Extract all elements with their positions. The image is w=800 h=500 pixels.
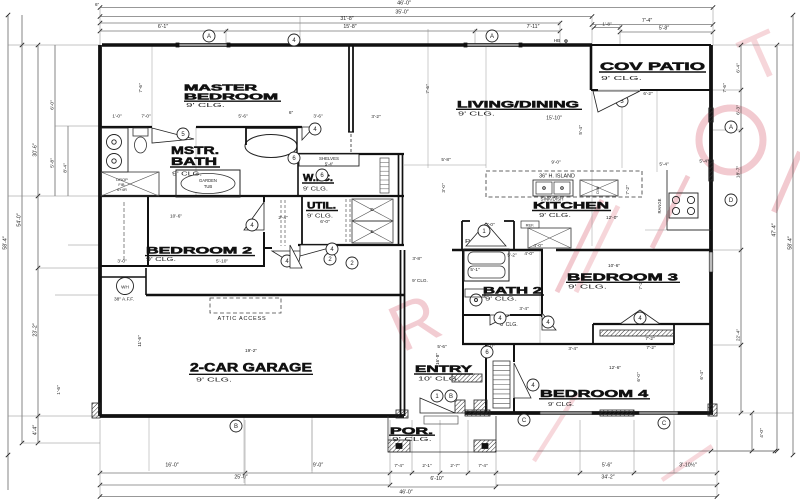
svg-text:TUB: TUB [204,184,213,189]
bath2 east wall [541,250,543,317]
garden tub [176,170,240,197]
svg-text:BEDROOM 2: BEDROOM 2 [146,246,252,257]
svg-text:38″ A.F.F.: 38″ A.F.F. [114,297,134,303]
right exterior wall [709,45,713,413]
util south wall [298,244,404,246]
svg-text:2-CAR GARAGE: 2-CAR GARAGE [190,361,312,375]
svg-text:MASTER: MASTER [184,84,257,93]
bath2 west wall [462,250,464,344]
bed2 hall doors [324,253,336,265]
svg-text:4'-0″: 4'-0″ [524,251,534,256]
util east wall [398,154,400,245]
mbath sink 1 [107,135,122,150]
tag C bottom2 [518,414,530,426]
svg-text:E: E [370,229,373,234]
svg-text:7'-2″: 7'-2″ [625,185,630,195]
garage south hatch right [396,410,408,418]
util west wall [301,196,303,245]
mbath toilet [133,128,148,136]
entry door tags [431,390,443,402]
svg-text:7'-4″: 7'-4″ [642,18,652,24]
right wall hatch kitchen [709,160,713,181]
svg-text:6'-0″: 6'-0″ [320,219,330,225]
svg-text:5'-6″: 5'-6″ [437,344,447,349]
left wall hatch bottom [92,403,100,418]
svg-text:9' CLG.: 9' CLG. [307,214,333,220]
svg-text:2'-1″: 2'-1″ [422,463,432,468]
svg-text:A: A [729,125,733,131]
svg-text:6+4R: 6+4R [117,187,127,192]
svg-text:15'-10″: 15'-10″ [546,116,562,122]
bedroom2 south wall [100,265,264,267]
svg-text:C: C [662,421,667,427]
entry hatch left [452,374,482,382]
svg-text:3'-6″: 3'-6″ [313,114,323,119]
svg-text:6'-1″: 6'-1″ [158,24,168,30]
exterior top wall with windows [102,43,592,47]
svg-text:31'-8″: 31'-8″ [340,16,353,22]
mbath vanity counter [101,128,128,172]
svg-text:3'-4″: 3'-4″ [568,346,578,351]
svg-text:WH: WH [121,285,129,290]
svg-text:BATH: BATH [171,156,217,168]
svg-text:16'-8″: 16'-8″ [435,353,440,365]
svg-text:9' CLG.: 9' CLG. [539,213,572,219]
island sink [533,180,573,196]
pantry west wall [461,221,463,250]
svg-text:19'-2″: 19'-2″ [245,348,257,353]
closet divider east [673,324,675,344]
interior dimension texts [112,83,727,382]
svg-text:5'-4″: 5'-4″ [325,161,334,166]
ref box [521,221,539,228]
svg-text:30'-6″: 30'-6″ [33,143,39,156]
bath2 tub [464,249,509,281]
svg-text:6'-4″: 6'-4″ [699,370,704,380]
closet divider west [592,324,594,344]
pantry east wall [513,221,515,250]
svg-text:4'-0″: 4'-0″ [759,428,765,438]
window tag A2 [486,30,498,42]
svg-text:47'-4″: 47'-4″ [772,223,778,236]
mbath shower [245,135,297,158]
svg-text:12'-6″: 12'-6″ [609,365,621,370]
wic north wall [298,153,404,155]
svg-text:5'-4″: 5'-4″ [578,125,583,135]
master east wall [348,45,350,132]
svg-text:9' CLG.: 9' CLG. [568,285,607,291]
svg-text:GARDEN: GARDEN [199,178,217,183]
top dimension lines [95,1,715,45]
garage north wall [146,294,404,296]
svg-text:9' CLG.: 9' CLG. [601,76,643,82]
front door steps [424,416,458,424]
wic rod strip [380,158,389,193]
svg-text:1'-8″: 1'-8″ [602,21,612,26]
hall south door [272,251,301,267]
svg-text:46'-0″: 46'-0″ [399,490,412,496]
shelves box [299,154,359,166]
svg-text:A: A [490,34,494,40]
bedroom2 east wall [263,196,265,202]
bed4 closet tag [481,346,493,358]
svg-text:6″: 6″ [289,110,294,115]
svg-text:54'-0″: 54'-0″ [17,213,23,226]
bedroom4 south exterior wall with windows [465,411,713,414]
svg-text:D/W: D/W [596,186,600,194]
pantry north wall [462,220,470,222]
svg-text:22'-4″: 22'-4″ [736,329,742,342]
right dimension lines [713,13,795,457]
range box [669,193,698,218]
svg-text:34'-2″: 34'-2″ [601,475,614,481]
porch column left [388,440,410,452]
svg-text:C: C [522,418,527,424]
svg-text:2'-4″: 2'-4″ [278,215,288,220]
svg-text:SHELVES: SHELVES [319,156,339,161]
mbath door [152,128,194,143]
kitchen counter right [666,170,668,230]
bed3 west wall [541,250,543,313]
util door [300,245,340,256]
svg-text:7'-6″: 7'-6″ [722,83,727,93]
hall dashed strip [280,200,282,246]
svg-text:7'-2″: 7'-2″ [638,280,643,290]
svg-text:3'-4″: 3'-4″ [519,306,529,311]
porch edge right [495,416,497,440]
svg-text:3'-0″: 3'-0″ [441,183,446,193]
wh closet top [100,276,146,278]
svg-text:5'-6″: 5'-6″ [602,463,612,469]
svg-text:9' CLG.: 9' CLG. [458,112,496,118]
left exterior wall [98,45,102,416]
svg-text:9'-0″: 9'-0″ [313,463,323,469]
svg-text:B: B [449,394,453,400]
pantry door [466,223,506,246]
wh closet east [145,268,147,295]
svg-text:5'-6″: 5'-6″ [238,114,248,119]
garage tag [230,420,242,432]
mbath sink 2 [107,154,122,169]
svg-text:7'-6″: 7'-6″ [425,84,430,94]
wic west wall [297,154,299,196]
svg-text:7'-4″: 7'-4″ [394,463,404,468]
tag A right [725,121,737,133]
svg-text:58'-4″: 58'-4″ [788,236,794,249]
svg-text:5'-8″: 5'-8″ [659,25,669,31]
svg-text:9' CLG.: 9' CLG. [548,402,574,408]
bed4 closet shelf [493,361,510,408]
bed3 south wall [593,323,711,325]
svg-text:2'-7″: 2'-7″ [450,463,460,468]
svg-text:9' CLG.: 9' CLG. [186,103,226,109]
svg-text:25'-0″: 25'-0″ [234,475,247,481]
svg-text:10' CLG.: 10' CLG. [418,377,460,383]
svg-text:B: B [234,424,238,430]
svg-text:HB: HB [554,38,560,43]
bedroom2 door leaf [244,202,264,230]
hall south wall [264,247,272,249]
bottom dimension lines [98,420,777,499]
svg-text:9' CLG.: 9' CLG. [146,257,176,263]
svg-text:4'-4″: 4'-4″ [33,425,39,435]
interior extension lines [149,45,713,483]
svg-text:A: A [207,34,211,40]
svg-text:5'-8″: 5'-8″ [50,158,56,168]
svg-text:8'-4″: 8'-4″ [63,163,69,173]
svg-text:36″ H. ISLAND: 36″ H. ISLAND [539,174,575,180]
svg-text:6'-0″: 6'-0″ [50,100,56,110]
svg-text:9' CLG.: 9' CLG. [172,172,202,178]
bedroom2 closet wall [147,196,149,266]
bed4 door [514,363,531,398]
svg-text:9' CLG.: 9' CLG. [303,187,328,193]
tag top4 [288,34,300,46]
right wall window bedroom3 [709,252,713,272]
mbath south wall [100,195,404,197]
bed4 closet east wall [513,344,515,362]
svg-text:1'-0″: 1'-0″ [112,114,122,119]
svg-text:3'-2″: 3'-2″ [371,114,381,119]
svg-text:6'-10″: 6'-10″ [430,476,443,482]
patio west wall [590,45,593,90]
svg-text:4'-0″: 4'-0″ [533,243,543,248]
porch front edge [388,451,496,453]
svg-text:11'-6″: 11'-6″ [137,335,142,347]
svg-text:58'-4″: 58'-4″ [3,236,9,249]
left dimension lines [3,13,101,490]
bedroom4 south wall hatch [600,410,634,416]
svg-text:3'-8″: 3'-8″ [412,256,422,261]
wic door [316,169,328,181]
svg-text:7'-0″: 7'-0″ [141,114,151,119]
util dashed strip [345,199,347,243]
porch edge left [387,416,389,440]
washer dryer boxes [352,199,393,221]
svg-text:5'-1″: 5'-1″ [470,267,480,272]
svg-text:12'-0″: 12'-0″ [606,215,618,220]
svg-text:7'-11″: 7'-11″ [527,24,540,30]
closet shelf hatch [600,330,674,336]
island dw [580,180,618,196]
linen closet xbox [101,172,159,196]
svg-text:46'-0″: 46'-0″ [397,1,411,7]
svg-text:15'-8″: 15'-8″ [343,24,356,30]
svg-text:5'-2″: 5'-2″ [507,253,517,258]
garage east wall [400,250,402,416]
svg-text:9' CLG.: 9' CLG. [392,437,432,443]
svg-text:ATTIC ACCESS: ATTIC ACCESS [218,316,267,322]
svg-text:6'-0″: 6'-0″ [636,372,641,382]
attic access [210,298,281,313]
svg-text:5'-4″: 5'-4″ [659,162,669,167]
garage south wall [100,414,404,418]
svg-text:9' CLG.: 9' CLG. [412,278,428,283]
patio top wall [592,44,711,46]
svg-text:D: D [729,198,734,204]
svg-text:10'-6″: 10'-6″ [170,214,182,219]
svg-text:23'-2″: 23'-2″ [33,323,39,336]
bed3 door [542,313,556,330]
bath2 toilet [465,289,485,297]
entry west upper wall [404,250,406,295]
kitchen island [486,171,642,197]
svg-text:9' CLG.: 9' CLG. [196,378,233,384]
svg-text:5'-10″: 5'-10″ [216,259,228,264]
svg-text:6'-2″: 6'-2″ [643,91,653,96]
wh circle [117,278,134,295]
mbath door6 [302,127,314,140]
svg-text:10'-6″: 10'-6″ [608,263,620,268]
svg-text:16'-0″: 16'-0″ [165,463,178,469]
svg-text:SINK/DISH: SINK/DISH [541,197,564,202]
svg-text:9'-0″: 9'-0″ [551,160,561,165]
svg-text:5'-8″: 5'-8″ [441,157,451,162]
svg-text:3'-10½″: 3'-10½″ [679,462,697,469]
tag C bottom1 [658,417,670,429]
svg-text:1'-6″: 1'-6″ [56,385,62,395]
svg-text:7'-4″: 7'-4″ [478,463,488,468]
patio door [616,95,628,107]
bedroom2 closet rod2 [123,202,125,260]
svg-text:18'-7″: 18'-7″ [736,166,742,179]
bed3 closet door [620,310,660,324]
window tag A1 [203,30,215,42]
svg-text:7'-2″: 7'-2″ [645,336,655,341]
closet wall lower [462,343,674,345]
svg-text:RANGE: RANGE [657,198,662,213]
bath2 south wall [462,314,490,316]
svg-text:5'-4″: 5'-4″ [699,159,709,164]
watermark [378,15,800,480]
svg-text:7'-6″: 7'-6″ [138,83,143,93]
svg-text:35'-0″: 35'-0″ [395,10,408,16]
entry east wall [485,344,487,413]
svg-text:9' CLG.: 9' CLG. [485,297,517,303]
svg-text:6'-4″: 6'-4″ [736,63,742,73]
porch column right [474,440,496,452]
svg-text:3'-0″: 3'-0″ [117,259,127,264]
svg-text:6'-3″: 6'-3″ [736,105,742,115]
master south wall [100,126,152,128]
kitchen south wall [452,249,543,251]
tag D right [725,194,737,206]
svg-text:COV PATIO: COV PATIO [600,61,706,73]
bath2 door [490,315,510,325]
svg-text:REF.: REF. [526,222,535,227]
svg-text:BEDROOM: BEDROOM [184,93,279,102]
svg-text:6″: 6″ [95,2,100,7]
svg-text:7'-2″: 7'-2″ [646,345,656,350]
